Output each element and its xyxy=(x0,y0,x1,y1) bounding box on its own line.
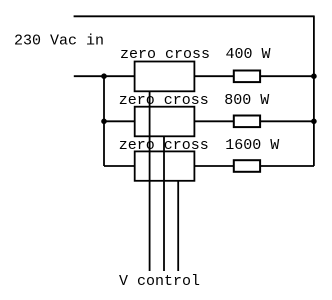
wire: resistor R2 to right bus xyxy=(260,120,314,122)
wire: control line from zero cross 2 down to V control xyxy=(163,136,165,271)
wire: control line from zero cross 3 down to V control xyxy=(177,181,179,271)
junction dot A xyxy=(101,73,107,79)
wire: right AC bus (vertical) xyxy=(313,16,315,167)
svg-text:1600 W: 1600 W xyxy=(225,137,279,154)
svg-text:zero cross: zero cross xyxy=(119,92,209,109)
zero cross module 3 (box) xyxy=(135,151,195,180)
svg-text:zero cross: zero cross xyxy=(120,46,210,63)
wire: branch from left bus corner to zero cross 3 xyxy=(104,165,135,167)
junction dot on right bus at R1 xyxy=(311,73,317,79)
resistor R3 (1600 W load) xyxy=(234,160,260,172)
svg-text:400 W: 400 W xyxy=(226,46,271,63)
resistor R1 (400 W load) xyxy=(234,71,260,83)
wire: top AC line from left input terminal to right bus xyxy=(74,15,314,17)
resistor R2 (800 W load) xyxy=(234,116,260,128)
svg-text:zero cross: zero cross xyxy=(119,137,209,154)
wire: left vertical bus from junction A down to zero cross 3 branch xyxy=(103,76,105,166)
zero cross module 2 (box) xyxy=(135,107,195,137)
svg-text:V control: V control xyxy=(119,273,200,290)
wire: AC input stub to zero cross 1 xyxy=(74,75,135,77)
wire: resistor R3 to right bus corner xyxy=(260,165,314,167)
wire: control line from zero cross 1 down to V control xyxy=(149,91,151,271)
wire: branch from junction B to zero cross 2 xyxy=(104,120,135,122)
wire: zero cross 3 output to resistor R3 xyxy=(194,165,233,167)
svg-text:800 W: 800 W xyxy=(224,92,269,109)
wire: resistor R1 to right bus xyxy=(260,75,314,77)
wire: zero cross 1 output to resistor R1 xyxy=(194,75,233,77)
svg-text:230 Vac in: 230 Vac in xyxy=(14,33,104,50)
wire: zero cross 2 output to resistor R2 xyxy=(194,120,233,122)
zero cross module 1 (box) xyxy=(135,62,195,92)
junction dot on right bus at R2 xyxy=(311,119,317,125)
junction dot B xyxy=(101,119,107,125)
